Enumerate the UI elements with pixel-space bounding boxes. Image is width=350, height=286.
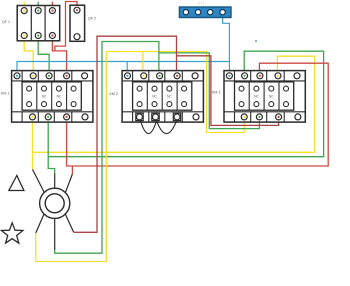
svg-text:KM 1: KM 1 xyxy=(1,92,9,96)
svg-text:NC: NC xyxy=(42,95,47,99)
contactor KM2 terminal wire dots xyxy=(126,75,178,77)
contactor KM2 top terminals xyxy=(125,73,199,79)
wire red net W: KM1 T4 bottom down to horizontal run xyxy=(67,63,329,166)
motor M1 inner circle xyxy=(45,194,64,213)
wire red QF2 feed loop from L3 net to QF2 top terminal xyxy=(55,2,77,51)
svg-text:QF 2: QF 2 xyxy=(88,17,96,21)
svg-text:QF 1: QF 1 xyxy=(2,20,10,24)
star point jumper arc KM2 T2-T3 xyxy=(141,121,157,134)
motor lead SW spoke xyxy=(36,214,44,233)
svg-text:KM 3: KM 3 xyxy=(212,90,220,94)
wire green net from motor S lead up to KM2 T3 xyxy=(55,42,159,254)
contactor KM1 auxiliary contact circles xyxy=(27,86,77,107)
contactor KM3 terminal wire dots xyxy=(228,75,279,118)
stray mark node xyxy=(255,40,257,42)
contactor KM2 body xyxy=(122,71,203,123)
breaker QF1 terminals xyxy=(21,8,55,39)
motor lead NW spoke xyxy=(33,169,45,192)
contactor KM1 body xyxy=(12,71,93,123)
motor M1 body outer circle xyxy=(40,188,70,218)
breaker QF1 body xyxy=(17,6,60,41)
wire blue horizontal bus to KM1 T1 and KM2 T1 xyxy=(17,62,229,76)
wire red short drop to motor NE lead xyxy=(71,166,73,174)
svg-text:KM 2: KM 2 xyxy=(110,92,118,96)
delta symbol xyxy=(9,176,24,191)
contactor KM1 top terminals xyxy=(14,73,88,79)
breaker QF2 terminal wire dot xyxy=(76,9,78,11)
breaker QF1 terminal wire dots xyxy=(23,10,53,37)
contactor KM2 auxiliary contact circles xyxy=(137,86,187,107)
star point link squares on KM2 bottom terminals xyxy=(136,113,181,120)
wire yellow QF1 pole1 output to KM1 T2 xyxy=(24,36,33,76)
motor lead NE spoke xyxy=(65,174,72,193)
wire green long horizontal run to right side riser into KM3 T2 xyxy=(48,51,323,157)
motor lead S spoke xyxy=(54,218,56,249)
wire red QF1 pole3 output to KM1 T4 xyxy=(52,36,66,76)
contactor KM3 bottom terminals xyxy=(241,114,301,120)
wire L2 green supply stub into QF1 pole2 xyxy=(37,2,39,11)
contactor KM1 terminal wire dots xyxy=(16,75,68,118)
contactor KM3 top terminals xyxy=(226,73,300,79)
terminal strip XT1 screws xyxy=(183,10,225,15)
contactor KM2 bottom terminals xyxy=(137,114,200,120)
contactor KM3 body xyxy=(224,71,305,123)
star point jumper arc KM2 T3-T4 xyxy=(157,121,177,134)
wire dark red net from motor SE lead up to KM2 T4 xyxy=(74,36,177,232)
wire yellow net from motor SW lead up to KM2 T2 and KM3 T2 bottom xyxy=(36,52,244,262)
wire dark red branch to KM3 T4 bottom xyxy=(177,56,279,126)
terminal strip XT1 body xyxy=(179,7,231,18)
svg-text:NC: NC xyxy=(152,95,157,99)
breaker QF2 body xyxy=(70,5,85,41)
wire blue from terminal strip down to KM3 T1 xyxy=(223,12,230,76)
svg-text:NC: NC xyxy=(254,95,259,99)
wire L3 red supply stub into QF1 pole3 xyxy=(51,2,53,11)
svg-text:NC: NC xyxy=(57,95,62,99)
svg-text:XT 1: XT 1 xyxy=(198,2,205,6)
wire green QF1 pole2 output to KM1 T3 xyxy=(38,36,49,76)
wire blue drop into KM2 T1 xyxy=(126,62,128,76)
svg-text:NC: NC xyxy=(269,95,274,99)
motor lead N spoke xyxy=(54,174,56,189)
wire yellow drop into KM2 T2 xyxy=(142,52,144,76)
wire green branch to KM3 T3 bottom xyxy=(159,53,260,129)
contactor KM3 auxiliary contact circles xyxy=(239,86,289,107)
wire yellow net U: KM1 T2 bottom down to motor NW lead junction xyxy=(32,117,34,169)
wire yellow long horizontal run to right side riser xyxy=(33,56,315,152)
svg-text:NC: NC xyxy=(167,95,172,99)
wire green net V: KM1 T3 bottom down with jog to motor N lead xyxy=(48,117,55,174)
star symbol xyxy=(2,223,23,243)
breaker QF2 terminals xyxy=(74,7,80,40)
wire L1 yellow supply stub into QF1 pole1 xyxy=(23,2,25,11)
motor lead SE spoke xyxy=(65,214,73,232)
contactor KM1 bottom terminals xyxy=(30,114,89,120)
